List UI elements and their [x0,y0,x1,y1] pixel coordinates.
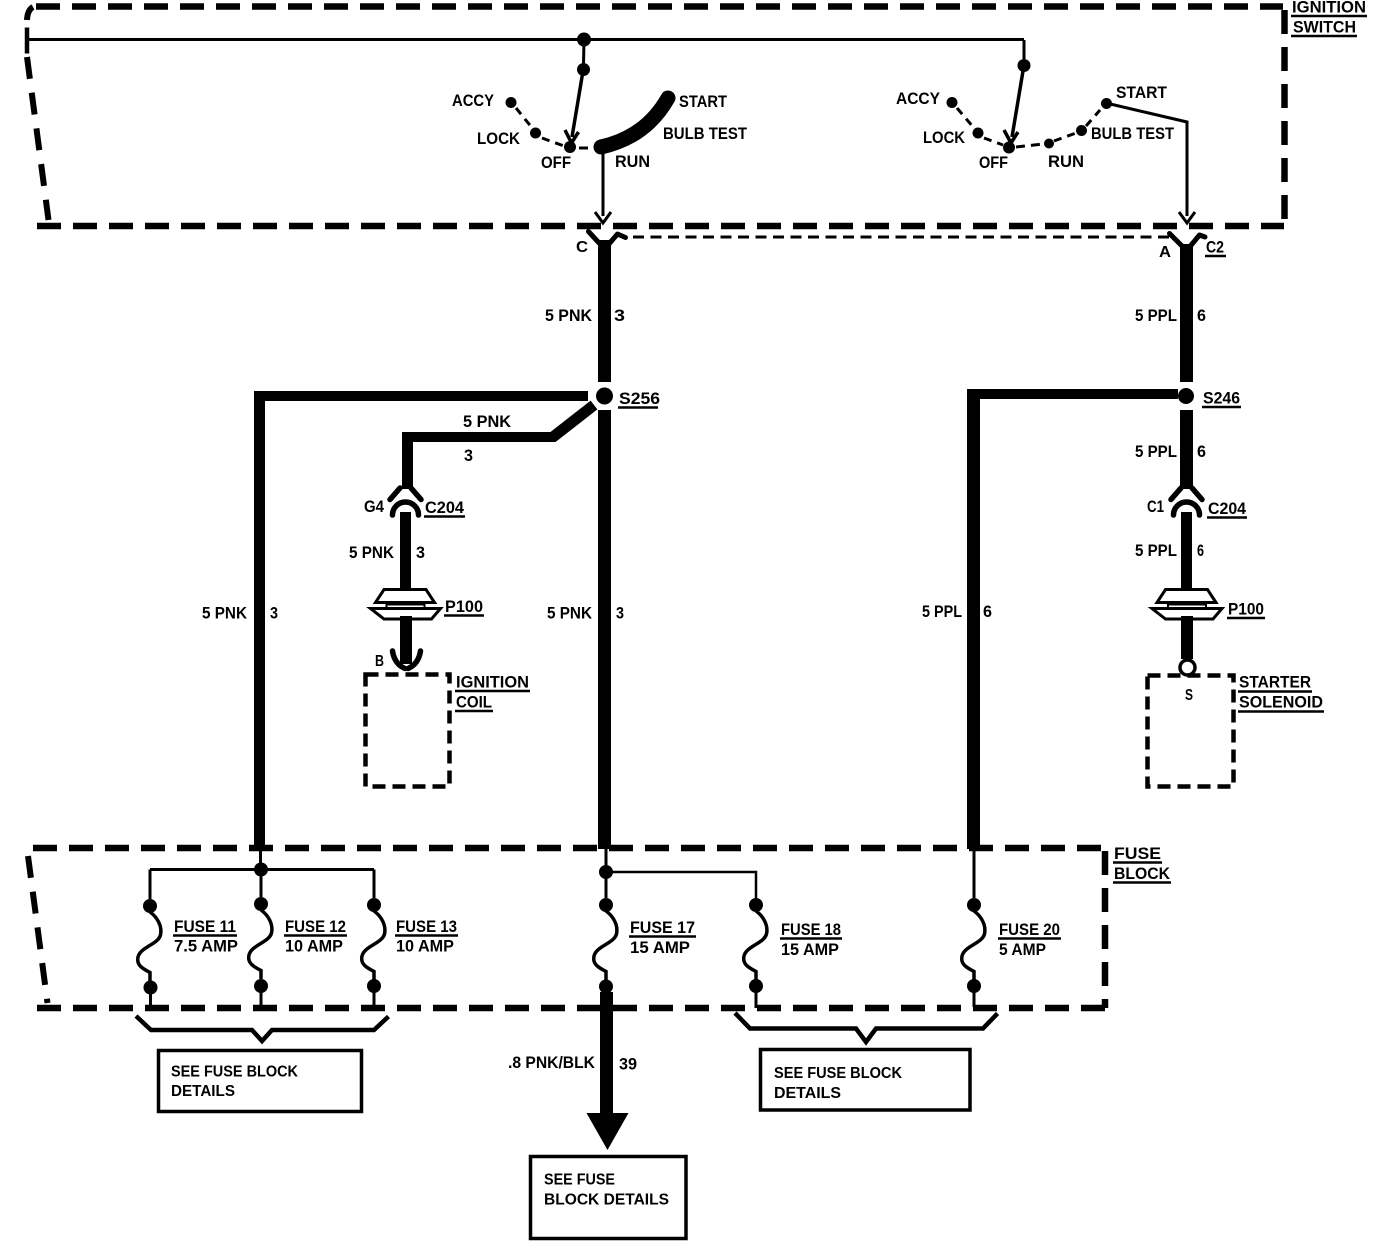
node: fuse 17 junction [599,865,613,879]
svg-text:START: START [679,92,728,111]
grommet P100 right [1152,590,1222,620]
fuse F17 [594,898,617,994]
svg-text:IGNITION: IGNITION [456,673,529,692]
wire: feeder into fuse 17 [605,849,608,866]
svg-text:P100: P100 [1228,600,1264,619]
node: left switch pivot [577,63,590,76]
svg-text:FUSE: FUSE [1114,844,1161,863]
svg-text:6: 6 [1197,306,1206,325]
svg-text:SWITCH: SWITCH [1293,18,1356,37]
left switch arm arrowhead [565,130,579,143]
right switch arm arrowhead [1004,130,1018,143]
svg-text:15 AMP: 15 AMP [630,938,690,957]
svg-text:ACCY: ACCY [896,89,941,108]
wire: bus drop to fuse 11 [149,870,152,900]
wire: battery feed bus [27,38,1024,41]
svg-text:BLOCK: BLOCK [1114,864,1171,883]
fuse block label [1113,844,1171,883]
svg-text:10 AMP: 10 AMP [396,937,454,956]
svg-text:FUSE 12: FUSE 12 [285,917,346,936]
svg-text:C1: C1 [1147,497,1164,516]
right switch ACCY contact [947,97,958,108]
dashed link OFF-RUN [579,147,594,150]
svg-text:BULB TEST: BULB TEST [1091,124,1175,143]
svg-text:3: 3 [464,446,473,465]
wire: junction to switch pivot [582,40,586,64]
svg-text:ACCY: ACCY [452,91,495,110]
wire: feeder into fuse 12 column [259,849,262,863]
wire: 5 PNK from C to S256 [598,240,611,382]
svg-text:15 AMP: 15 AMP [781,940,839,959]
right switch BULB TEST contact [1076,125,1087,136]
dashed link ACCY-LOCK right [957,108,974,128]
svg-text:START: START [1116,83,1168,102]
svg-text:C: C [576,239,588,256]
dashed link BULB TEST-START right [1086,110,1100,126]
svg-text:5 PNK: 5 PNK [463,412,512,431]
left switch LOCK contact [530,128,541,139]
wire: left switch output [602,152,605,216]
connector C204 left (male dome) [393,502,419,515]
svg-text:5 PPL: 5 PPL [1135,541,1177,560]
svg-text:7.5 AMP: 7.5 AMP [174,937,238,956]
starter solenoid dashed box [1148,676,1234,787]
wire: S246 to C204 right [1180,410,1193,489]
svg-text:SEE FUSE: SEE FUSE [544,1172,615,1189]
right switch OFF contact [1003,142,1015,154]
ignition switch dashed box [27,7,1285,227]
svg-text:SEE FUSE BLOCK: SEE FUSE BLOCK [171,1064,298,1081]
connector interface dashed line [633,236,1169,239]
svg-text:P100: P100 [445,597,483,616]
svg-text:OFF: OFF [541,153,571,172]
arrowhead into ignition coil [393,651,406,669]
wire: feeder into fuse 20 [973,849,976,898]
svg-text:B: B [375,653,384,670]
brace under fuses 11-13 [136,1016,389,1041]
svg-text:5 PNK: 5 PNK [545,306,593,325]
starter solenoid ring terminal [1180,660,1195,675]
svg-text:5 PPL: 5 PPL [1135,442,1177,461]
right switch arm [1012,71,1023,137]
wire: fuse bus 11-13 [150,868,374,871]
svg-text:STARTER: STARTER [1239,673,1311,692]
wire: junction to fuse 17 [605,878,608,898]
wire: P100 to ignition coil [400,616,412,664]
feed bus left end cap [25,28,30,54]
node: fuse bus junction [254,863,268,877]
ignition coil dashed box [366,675,450,787]
fuse block dashed box [28,848,1105,1008]
connector C204 left (female wings) [390,488,421,515]
see fuse block details box bottom [531,1157,687,1239]
wire: C204 to P100 right [1181,512,1192,592]
svg-text:DETAILS: DETAILS [774,1085,841,1102]
svg-text:5 PNK: 5 PNK [547,604,593,623]
left switch RUN-START thick arc [601,98,668,147]
connector C2 (female Y) [1170,234,1206,247]
wire: S256 down to fuse block [598,410,611,849]
svg-text:39: 39 [619,1055,637,1074]
wire: bus drop to fuse 12 [260,876,263,897]
svg-text:5 PNK: 5 PNK [349,543,395,562]
svg-text:LOCK: LOCK [923,128,966,147]
connector C204 right (female wings) [1171,488,1202,515]
svg-text:FUSE 18: FUSE 18 [781,920,841,939]
svg-text:COIL: COIL [456,693,492,712]
wire: .8 PNK/BLK output of fuse 17 [600,992,613,1116]
svg-text:5 PNK: 5 PNK [202,604,248,623]
svg-text:.8 PNK/BLK: .8 PNK/BLK [508,1053,596,1072]
svg-text:C204: C204 [425,498,465,517]
dashed link LOCK-OFF right [984,138,1003,145]
arrowhead to connector C2 [1179,212,1195,223]
svg-text:G4: G4 [364,497,384,516]
ignition switch label [1291,0,1367,37]
splice S256 [596,388,613,405]
right switch RUN contact [1044,139,1054,149]
svg-text:S246: S246 [1203,389,1240,408]
left switch arm [572,74,583,137]
arrowhead to fuse details [587,1113,629,1150]
svg-text:IGNITION: IGNITION [1292,0,1366,17]
svg-text:RUN: RUN [1048,152,1084,171]
node: feed junction left [577,33,591,47]
svg-text:BULB TEST: BULB TEST [663,124,748,143]
connector C204 right (male dome) [1174,502,1200,515]
wire: C204 to P100 left [400,512,411,592]
right switch START contact [1101,98,1112,109]
svg-text:3: 3 [416,543,425,562]
arrowhead to connector C [595,212,611,223]
svg-text:FUSE 17: FUSE 17 [630,918,695,937]
brace under fuses 18-20 [735,1013,998,1042]
svg-text:A: A [1159,244,1171,261]
svg-text:3: 3 [614,306,625,325]
fuse F13 [362,898,385,1008]
see fuse block details box left [159,1051,362,1112]
node: right switch pivot [1018,59,1031,72]
dashed link OFF-RUN right [1016,144,1043,147]
wire: S256 diagonal branch [553,405,594,437]
fuse F18 [744,898,767,1008]
svg-text:FUSE 11: FUSE 11 [174,917,236,936]
svg-text:S: S [1185,687,1193,704]
svg-text:C204: C204 [1208,499,1247,518]
fuse F12 [249,897,272,1008]
svg-text:10 AMP: 10 AMP [285,937,343,956]
svg-text:C2: C2 [1206,238,1224,257]
svg-text:3: 3 [616,604,624,623]
wire: S256 branch to fuse block (far left) [254,391,588,401]
svg-text:FUSE 13: FUSE 13 [396,917,457,936]
left switch OFF contact [564,141,576,153]
dashed link RUN-BULB TEST right [1054,133,1076,141]
wire: bus 17 to 18 [606,872,756,898]
see fuse block details box right [761,1050,971,1111]
svg-text:BLOCK DETAILS: BLOCK DETAILS [544,1192,669,1209]
wire: P100 to starter solenoid [1181,616,1193,659]
svg-text:DETAILS: DETAILS [171,1083,235,1100]
fuse F11 [138,899,161,1008]
wire: drop to C204 [402,432,413,489]
svg-text:3: 3 [270,604,278,623]
wire: feed drop to right switch [1023,40,1026,59]
svg-text:5 AMP: 5 AMP [999,940,1046,959]
svg-text:6: 6 [983,602,992,621]
fuse F20 [962,898,985,1007]
svg-text:RUN: RUN [615,152,650,171]
wire: branch horizontal to ignition coil drop [402,432,556,442]
svg-text:LOCK: LOCK [477,129,521,148]
svg-text:SOLENOID: SOLENOID [1239,693,1323,712]
svg-text:5 PPL: 5 PPL [922,602,962,621]
wire: 5 PPL from C2 to S246 [1180,244,1193,382]
svg-text:S256: S256 [619,389,660,408]
grommet P100 left [371,590,441,620]
svg-text:SEE FUSE BLOCK: SEE FUSE BLOCK [774,1065,902,1082]
dashed link LOCK-OFF [542,138,564,146]
wire: S246 branch to fuse block [974,389,1178,399]
right switch LOCK contact [973,128,984,139]
svg-text:5 PPL: 5 PPL [1135,306,1177,325]
svg-text:OFF: OFF [979,153,1008,172]
svg-text:6: 6 [1197,541,1204,560]
left switch ACCY contact [506,97,517,108]
wire: right switch START output [1106,103,1187,216]
dashed link ACCY-LOCK [516,108,533,129]
wire: bus drop to fuse 13 [373,870,376,899]
connector C (female Y) [589,232,626,245]
svg-text:6: 6 [1197,442,1206,461]
svg-text:FUSE 20: FUSE 20 [999,920,1060,939]
splice S246 [1178,388,1194,404]
